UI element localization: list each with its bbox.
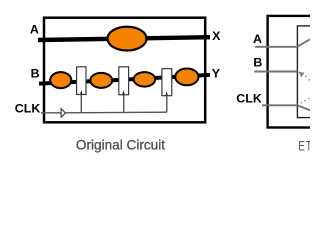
svg-text:Original Circuit: Original Circuit <box>76 137 165 152</box>
svg-text:CLK: CLK <box>15 101 41 115</box>
svg-text:ET: ET <box>298 138 310 154</box>
svg-text:A: A <box>30 23 39 37</box>
svg-text:B: B <box>31 67 40 81</box>
svg-text:A: A <box>253 32 262 46</box>
svg-text:X: X <box>212 29 221 43</box>
svg-text:B: B <box>253 56 262 70</box>
svg-text:CLK: CLK <box>236 92 262 106</box>
svg-text:Y: Y <box>212 67 221 81</box>
